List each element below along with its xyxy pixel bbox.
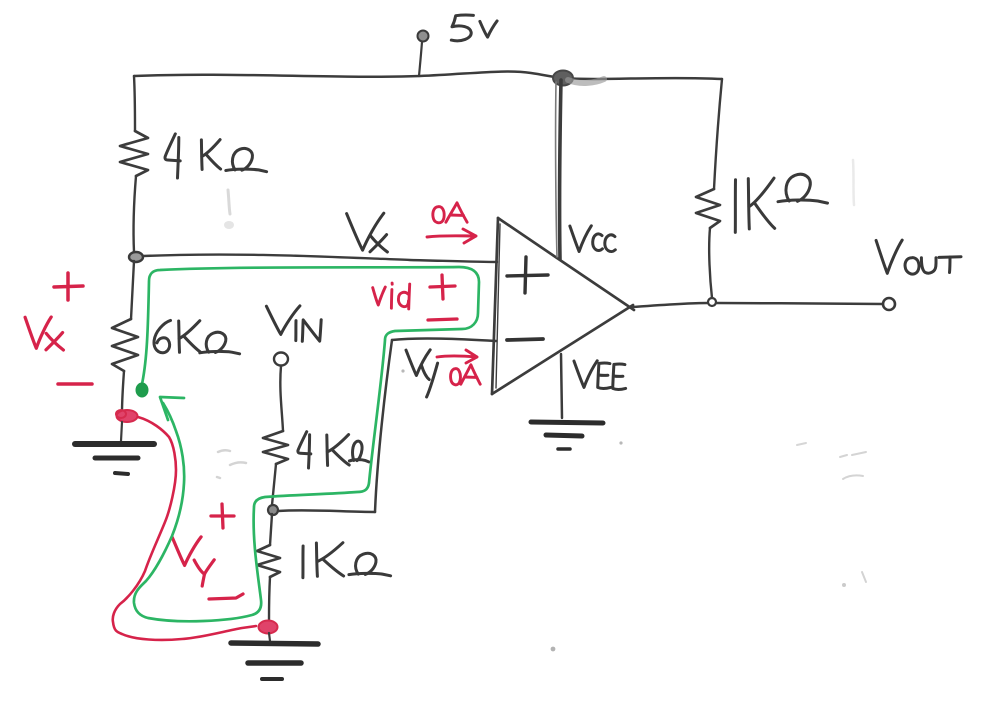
wire node Vy right (278, 510, 375, 512)
pencil smudge below 4KOhm (228, 190, 230, 214)
faint marks right side (840, 452, 866, 479)
wire VIN down (280, 366, 283, 431)
wire 1K to ground (269, 577, 270, 620)
wire output (633, 303, 708, 307)
minus sign middle red (209, 594, 243, 599)
ground left (75, 441, 154, 447)
wire top supply rail (134, 71, 722, 79)
red KVL loop wire (113, 417, 256, 640)
wire Vy riser (375, 340, 392, 512)
ground VEE (531, 422, 603, 423)
junction blob VCC on rail (553, 71, 573, 86)
label Vx red left (25, 317, 51, 348)
green arrowhead (160, 397, 184, 420)
resistor R2 6K zigzag (112, 319, 138, 371)
minus sign left red (58, 382, 92, 386)
label Vy net (406, 350, 430, 376)
label Vx net (347, 213, 384, 250)
plus sign left red (54, 273, 83, 300)
label vid red (373, 287, 386, 305)
terminal VOUT (883, 298, 895, 310)
resistor R3 4K middle zigzag (263, 431, 288, 464)
plus sign middle red (211, 504, 234, 528)
wire 4K to node Vx (134, 176, 136, 252)
label VIN (266, 306, 300, 335)
label VEE (574, 361, 597, 388)
label 5v (451, 15, 473, 41)
resistor R4 1K middle zigzag (257, 545, 280, 577)
wire node Vx down to 6K (131, 261, 134, 319)
label 1KOhm R5 (734, 180, 737, 233)
pencil smudges left of R3 (217, 450, 246, 478)
wire VEE (561, 354, 562, 418)
minus sign vid red (428, 319, 457, 320)
ground middle (269, 633, 270, 641)
junction node Vx (129, 252, 143, 262)
plus sign vid red (430, 275, 455, 299)
node output junction (708, 298, 716, 306)
resistor R1 4K top-left zigzag (120, 131, 148, 176)
label 0A red top (433, 207, 444, 223)
label VCC (570, 226, 591, 252)
arrow 0A top red (427, 229, 476, 243)
wire rail down to 1K right (714, 79, 722, 189)
label VOUT (876, 240, 902, 273)
green KVL loop wire (134, 267, 479, 621)
terminal VIN (274, 353, 288, 366)
terminal 5V (418, 31, 429, 42)
label 0A red bottom (451, 369, 461, 385)
wire node Vy down to 1K (270, 514, 272, 545)
arrow 0A bottom red (437, 350, 477, 363)
wire 1K right to output node (709, 228, 712, 298)
wire output to terminal (716, 303, 883, 304)
label VY red middle (172, 537, 201, 566)
op-amp U1 triangle (492, 218, 498, 394)
label 4KOhm R1 (165, 134, 180, 161)
label 6KOhm R2 (154, 320, 171, 352)
resistor R5 1K right zigzag (696, 189, 720, 228)
op-amp - input symbol (507, 339, 543, 340)
junction node Vy (268, 505, 278, 515)
red blob node at 6K bottom (117, 410, 138, 422)
red blob node at 1K bottom (259, 621, 278, 634)
wire 4K to node Vy (272, 464, 276, 505)
wire VCC (560, 80, 561, 259)
label 1KOhm R4 (301, 546, 304, 578)
wire node Vx to op-amp + input (143, 255, 497, 262)
wire blob to left ground (121, 422, 122, 441)
op-amp + input symbol (507, 257, 548, 293)
green node blob at 6K bottom (136, 383, 148, 397)
wire 6K to ground (122, 371, 124, 413)
wire Vy to op-amp - input (392, 338, 496, 341)
wire left supply drop (134, 76, 135, 131)
label 4KOhm R3 (298, 432, 311, 454)
